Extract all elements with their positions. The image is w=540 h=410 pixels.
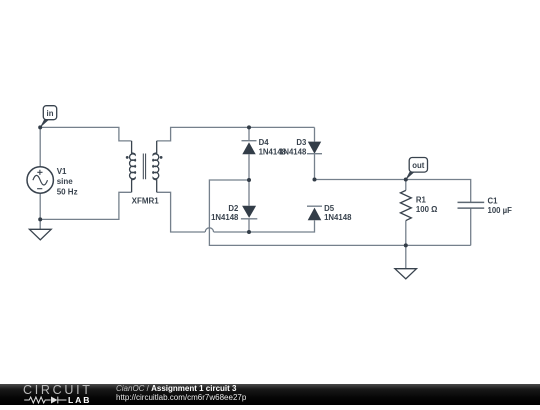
- wire: [405, 245, 407, 268]
- svg-text:D4: D4: [259, 138, 270, 147]
- logo CIRCUIT: [23, 385, 93, 395]
- footer bar: [0, 384, 540, 405]
- ground (load): [395, 269, 417, 279]
- svg-text:100 µF: 100 µF: [488, 206, 513, 215]
- node dot A (ground net): [247, 178, 251, 182]
- wire: [157, 127, 315, 140]
- node dot out: [404, 178, 408, 182]
- wire: [248, 154, 250, 180]
- wire: [248, 219, 250, 232]
- wire: [39, 127, 41, 166]
- diode D3: [307, 142, 322, 154]
- svg-text:XFMR1: XFMR1: [132, 196, 160, 205]
- voltage source V1: [27, 167, 53, 193]
- transformer XFMR1: [130, 141, 159, 192]
- wire: [405, 221, 407, 246]
- wire: [209, 180, 470, 245]
- resistor R1: [400, 190, 411, 220]
- node dot D3/D5 out: [313, 178, 317, 182]
- svg-text:C1: C1: [488, 196, 499, 205]
- node dot D2 bottom: [247, 230, 251, 234]
- node dot V1 bottom: [38, 217, 42, 221]
- phase dot left: [126, 156, 129, 159]
- wire: [40, 192, 131, 219]
- wire: [405, 180, 407, 191]
- svg-text:1N4148: 1N4148: [211, 213, 239, 222]
- phase dot right: [160, 156, 163, 159]
- diode D2: [241, 206, 257, 219]
- svg-text:R1: R1: [416, 195, 427, 204]
- wire: [39, 219, 41, 229]
- node dot ground rail: [404, 243, 408, 247]
- node dot in: [38, 125, 42, 129]
- svg-text:out: out: [412, 161, 425, 170]
- V1 value label: [57, 167, 78, 196]
- wire: [315, 154, 471, 202]
- svg-text:1N4148: 1N4148: [324, 213, 352, 222]
- logo LAB: [68, 397, 91, 404]
- diode D4: [242, 141, 257, 155]
- node in flag: [40, 106, 57, 128]
- svg-text:50 Hz: 50 Hz: [57, 187, 78, 196]
- svg-text:100 Ω: 100 Ω: [416, 205, 437, 214]
- svg-text:V1: V1: [57, 167, 67, 176]
- logo squiggle: [0, 384, 110, 405]
- wire: [39, 193, 41, 219]
- node dot top rail / D4: [247, 125, 251, 129]
- wire: [157, 192, 206, 232]
- wire: [40, 127, 131, 140]
- svg-text:D2: D2: [228, 204, 239, 213]
- wire: [314, 127, 316, 141]
- svg-text:D3: D3: [296, 138, 307, 147]
- svg-text:sine: sine: [57, 177, 74, 186]
- wire: [248, 180, 250, 206]
- svg-text:in: in: [47, 109, 54, 118]
- svg-text:D5: D5: [324, 204, 335, 213]
- wire: [470, 208, 472, 245]
- diode D5: [307, 206, 322, 220]
- capacitor C1: [458, 202, 485, 208]
- footer text: [116, 385, 246, 403]
- wire: [248, 127, 250, 140]
- wire hop: [205, 228, 213, 232]
- wire: [214, 220, 315, 232]
- ground (V1): [29, 229, 51, 240]
- svg-text:1N4148: 1N4148: [279, 148, 307, 157]
- node out flag: [405, 158, 427, 181]
